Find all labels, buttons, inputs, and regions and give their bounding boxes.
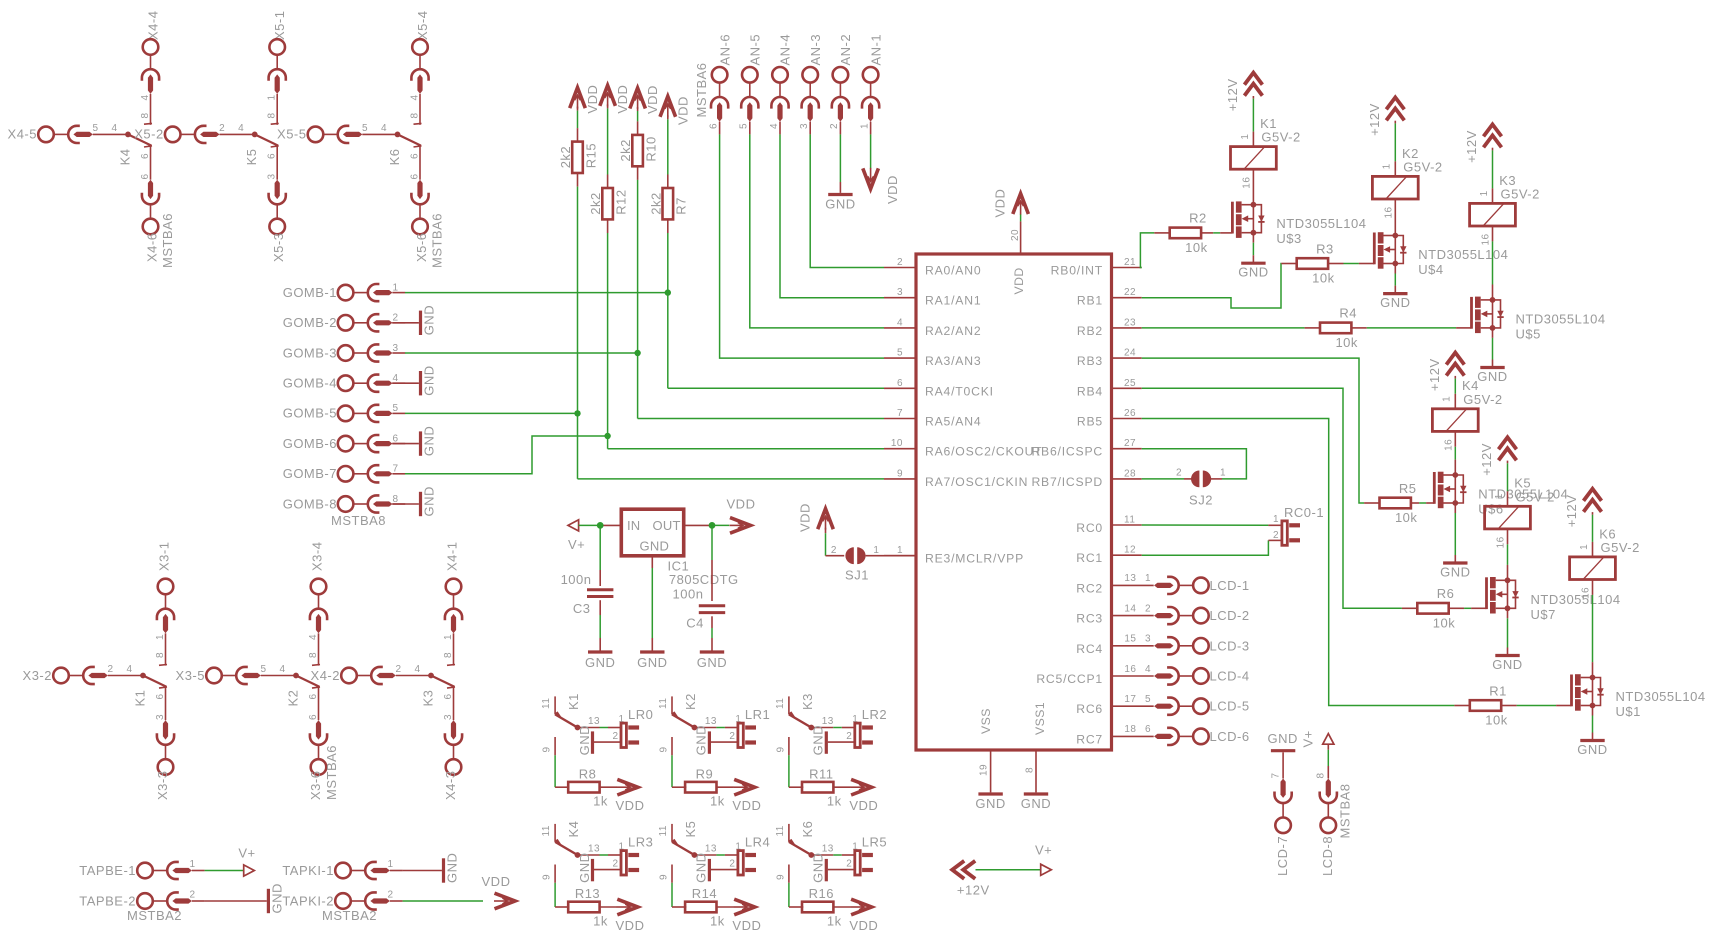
node K6 pivot — [808, 852, 814, 858]
svg-text:9: 9 — [897, 468, 903, 479]
ground IC1 — [640, 650, 664, 653]
relay K1 G5V-2 coil — [1231, 147, 1277, 170]
wire X4-5 to K4 common — [93, 133, 128, 135]
svg-text:6: 6 — [140, 173, 151, 179]
svg-text:28: 28 — [1124, 468, 1136, 479]
svg-text:GND: GND — [825, 197, 855, 212]
svg-text:R16: R16 — [809, 886, 834, 901]
svg-text:4: 4 — [410, 94, 421, 100]
transistor U$3 NTD3055L104 — [1232, 201, 1264, 238]
relay K5 G5V-2 coil — [1485, 506, 1531, 529]
svg-text:V+: V+ — [1035, 843, 1052, 858]
connector X5-3 pin — [269, 180, 286, 235]
node K5 pivot — [252, 132, 258, 138]
svg-text:GND: GND — [422, 486, 437, 516]
svg-text:U$7: U$7 — [1531, 607, 1556, 622]
led connector LR0 — [621, 723, 626, 747]
resistor R2 10k — [1170, 228, 1201, 239]
svg-text:6: 6 — [308, 693, 319, 699]
svg-text:6: 6 — [267, 153, 278, 159]
svg-text:3: 3 — [1145, 634, 1151, 645]
supply VDD (R11) — [851, 779, 872, 795]
svg-text:GOMB-7: GOMB-7 — [283, 466, 337, 481]
wire LR2 pin 2 to GND — [828, 741, 855, 743]
svg-text:RE3/MCLR/VPP: RE3/MCLR/VPP — [925, 552, 1024, 566]
svg-text:VDD: VDD — [616, 798, 645, 813]
svg-text:1: 1 — [1240, 134, 1251, 140]
svg-text:11: 11 — [1124, 515, 1135, 526]
supply VDD (IC1 output) — [730, 518, 751, 534]
svg-text:VDD: VDD — [849, 798, 878, 813]
svg-text:4: 4 — [279, 664, 285, 675]
wire SJ1 to RE3 — [866, 555, 916, 557]
resistor R12 2k2 — [602, 188, 613, 219]
svg-text:1: 1 — [873, 545, 879, 556]
svg-text:1: 1 — [267, 94, 278, 100]
svg-text:8: 8 — [1316, 772, 1327, 778]
svg-text:9: 9 — [658, 874, 669, 880]
svg-text:U$3: U$3 — [1276, 231, 1301, 246]
svg-text:RA3/AN3: RA3/AN3 — [925, 354, 981, 368]
wire VDD to R7 — [667, 115, 669, 119]
svg-text:1: 1 — [1442, 396, 1453, 402]
wire K3 pin 16 to U$5 drain — [1492, 226, 1494, 241]
supply +12V (K5) — [1499, 437, 1517, 460]
node R12/GOMB-7 junction — [604, 433, 610, 439]
wire K5 pin 16 to U$7 drain — [1507, 529, 1509, 544]
pin 9 RA7/OSC1/CKIN — [884, 478, 916, 480]
svg-text:16: 16 — [1496, 536, 1507, 548]
svg-text:LR3: LR3 — [628, 835, 653, 850]
wire R13 to VDD — [600, 906, 617, 908]
svg-text:GND: GND — [1238, 265, 1268, 280]
svg-text:MSTBA6: MSTBA6 — [694, 62, 709, 117]
svg-text:2: 2 — [392, 313, 398, 324]
svg-text:U$6: U$6 — [1478, 502, 1503, 517]
svg-text:1: 1 — [1479, 190, 1490, 196]
node K3 pivot — [808, 725, 814, 731]
svg-text:LCD-1: LCD-1 — [1210, 578, 1250, 593]
supply V+ (IC1 input) — [568, 520, 579, 531]
svg-text:9: 9 — [658, 746, 669, 752]
svg-text:8: 8 — [267, 112, 278, 118]
relay contact K2 (aux) — [671, 696, 673, 714]
svg-text:2: 2 — [189, 890, 195, 901]
svg-text:1: 1 — [859, 123, 870, 129]
relay contact K3 fixed contact — [453, 664, 455, 665]
relay contact K2 fixed contact — [318, 664, 320, 665]
supply VDD (R14) — [734, 899, 755, 915]
node IC1 output junction — [709, 522, 716, 529]
resistor R15 2k2 — [572, 142, 583, 173]
ground TAPBE-2 — [205, 900, 267, 902]
wire X3-5 to K2 common — [261, 675, 296, 677]
svg-text:VDD: VDD — [616, 918, 645, 933]
svg-text:LR4: LR4 — [745, 835, 770, 850]
svg-text:4: 4 — [381, 123, 387, 134]
pin 1 RE3/MCLR/VPP — [884, 555, 916, 557]
svg-text:26: 26 — [1124, 408, 1136, 419]
wire C4 to GND — [711, 616, 713, 628]
svg-text:R2: R2 — [1189, 211, 1207, 226]
svg-text:X4-5: X4-5 — [8, 127, 37, 142]
svg-text:VDD: VDD — [585, 85, 600, 114]
svg-text:G5V-2: G5V-2 — [1463, 392, 1502, 407]
svg-text:SJ1: SJ1 — [845, 568, 869, 583]
resistor R7 2k2 — [663, 188, 674, 219]
svg-text:GOMB-4: GOMB-4 — [283, 376, 337, 391]
ground GOMB-8 — [392, 503, 419, 505]
svg-text:X3-6: X3-6 — [308, 771, 323, 800]
svg-text:VDD: VDD — [885, 175, 900, 204]
svg-text:RB2: RB2 — [1077, 324, 1103, 338]
svg-text:GND: GND — [1021, 796, 1051, 811]
svg-text:GND: GND — [811, 725, 826, 755]
svg-text:RC5/CCP1: RC5/CCP1 — [1036, 672, 1103, 686]
wire +12V to K2 — [1394, 121, 1396, 124]
resistor R6 10k — [1417, 603, 1448, 614]
svg-text:GND: GND — [697, 655, 727, 670]
ic U1 PIC microcontroller body — [916, 254, 1112, 750]
svg-text:16: 16 — [1481, 233, 1492, 245]
svg-text:GND: GND — [585, 655, 615, 670]
svg-text:K4: K4 — [566, 821, 581, 838]
svg-text:LCD-4: LCD-4 — [1210, 669, 1250, 684]
wire LR0 pin 2 to GND — [594, 741, 621, 743]
svg-text:RC7: RC7 — [1076, 732, 1103, 746]
svg-text:2: 2 — [1176, 468, 1182, 479]
pin 16 RC5/CCP1 — [1112, 675, 1154, 677]
svg-text:11: 11 — [658, 698, 669, 709]
svg-text:4: 4 — [238, 123, 244, 134]
svg-text:U$4: U$4 — [1418, 262, 1443, 277]
svg-text:+12V: +12V — [1464, 130, 1479, 163]
svg-text:18: 18 — [1124, 724, 1136, 735]
node K1 pivot — [575, 725, 581, 731]
svg-text:23: 23 — [1124, 317, 1136, 328]
ground TAPKI-1 — [403, 870, 442, 872]
svg-text:11: 11 — [658, 825, 669, 836]
svg-text:RB5: RB5 — [1077, 415, 1103, 429]
svg-text:9: 9 — [542, 746, 553, 752]
wire K2 pin 16 to U$4 drain — [1394, 199, 1396, 236]
pin 8 VSS1 — [1035, 750, 1037, 792]
svg-text:3: 3 — [443, 714, 454, 720]
pin 11 RC0 — [1112, 524, 1142, 526]
ground VSS1 — [1024, 792, 1048, 795]
svg-text:8: 8 — [392, 494, 398, 505]
svg-text:V+: V+ — [238, 846, 255, 861]
ground K3 — [825, 731, 828, 753]
svg-text:10k: 10k — [1395, 510, 1417, 525]
svg-text:14: 14 — [1124, 603, 1136, 614]
node R10/GOMB-3 junction — [634, 350, 640, 356]
svg-text:G5V-2: G5V-2 — [1261, 130, 1300, 145]
svg-text:8: 8 — [410, 112, 421, 118]
ground GOMB-2 — [392, 322, 419, 324]
svg-text:2: 2 — [612, 859, 618, 870]
wire LR3 pin 2 to GND — [594, 869, 621, 871]
connector X4-3 pin — [445, 720, 462, 775]
node K2 pivot — [293, 673, 299, 679]
ground U$4 — [1383, 292, 1407, 295]
wire K4 pin 9 to R13 — [554, 865, 556, 883]
svg-text:4: 4 — [126, 664, 132, 675]
wire VDD to R10 — [637, 107, 639, 111]
svg-text:LCD-6: LCD-6 — [1210, 729, 1250, 744]
wire K3 pin 13 to LR2 — [811, 727, 833, 729]
svg-text:2k2: 2k2 — [648, 192, 663, 214]
svg-text:GND: GND — [694, 725, 709, 755]
svg-text:GND: GND — [975, 796, 1005, 811]
wire K2 pin 9 to R9 — [671, 737, 673, 755]
svg-text:GND: GND — [422, 305, 437, 335]
svg-text:VDD: VDD — [675, 96, 690, 125]
svg-text:9: 9 — [775, 746, 786, 752]
svg-text:2: 2 — [107, 664, 113, 675]
svg-text:3: 3 — [155, 714, 166, 720]
wire IC1 GND pin — [651, 556, 653, 568]
relay K2 G5V-2 coil — [1372, 176, 1418, 199]
svg-text:1: 1 — [189, 859, 195, 870]
svg-text:K3: K3 — [421, 690, 436, 707]
svg-text:GND: GND — [1492, 657, 1522, 672]
svg-text:MSTBA2: MSTBA2 — [127, 908, 182, 923]
pin 3 RA1/AN1 — [884, 297, 916, 299]
svg-text:K2: K2 — [683, 693, 698, 710]
wire RB3 to R5 — [1142, 358, 1364, 503]
svg-text:GND: GND — [694, 853, 709, 883]
wire SJ2 to RB6 — [1210, 478, 1223, 480]
svg-text:RA1/AN1: RA1/AN1 — [925, 294, 981, 308]
svg-text:GOMB-3: GOMB-3 — [283, 345, 337, 360]
svg-text:U$1: U$1 — [1616, 704, 1641, 719]
svg-text:X3-1: X3-1 — [157, 542, 172, 571]
svg-text:AN-5: AN-5 — [748, 34, 763, 66]
svg-text:10k: 10k — [1185, 240, 1207, 255]
wire VDD to R12 — [607, 104, 609, 108]
wire LR4 pin 2 to GND — [711, 869, 738, 871]
resistor R8 1k — [568, 782, 599, 793]
relay contact K4 fixed contact — [150, 124, 152, 126]
connector LCD-7 pin — [1282, 752, 1284, 778]
pin 7 RA5/AN4 — [884, 418, 916, 420]
svg-text:100n: 100n — [561, 572, 592, 587]
wire R7 net to RA4 — [667, 233, 669, 388]
wire AN-2 to GND — [839, 134, 841, 182]
wire K4 pin 16 to U$6 drain — [1454, 431, 1456, 446]
resistor R1 10k — [1470, 700, 1501, 711]
led connector LR1 — [738, 723, 743, 747]
supply +12V (K6) — [1584, 489, 1602, 512]
svg-text:RA6/OSC2/CKOUT: RA6/OSC2/CKOUT — [925, 445, 1043, 459]
connector LCD-8 pin — [1327, 744, 1329, 750]
svg-text:1: 1 — [1220, 468, 1226, 479]
connector LCD-5 pin — [1154, 698, 1209, 715]
svg-text:3: 3 — [799, 123, 810, 129]
wire AN-3 net — [810, 134, 884, 267]
wire K4 pin 13 to LR3 — [578, 854, 600, 856]
svg-text:RC0-1: RC0-1 — [1284, 505, 1324, 520]
connector LCD-4 pin — [1154, 667, 1209, 684]
svg-text:GOMB-5: GOMB-5 — [283, 406, 337, 421]
svg-text:10: 10 — [891, 438, 903, 449]
svg-text:K1: K1 — [566, 693, 581, 710]
ground LCD-7 — [1271, 749, 1295, 752]
wire R7 lower lead — [667, 219, 669, 233]
svg-text:8: 8 — [155, 652, 166, 658]
ground U$3 — [1241, 262, 1265, 265]
svg-text:VDD: VDD — [798, 503, 813, 532]
svg-text:X3-5: X3-5 — [176, 668, 205, 683]
pin 23 RB2 — [1112, 327, 1142, 329]
ground U$6 — [1443, 561, 1467, 564]
svg-text:NTD3055L104: NTD3055L104 — [1418, 247, 1508, 262]
svg-text:5: 5 — [392, 403, 398, 414]
svg-text:8: 8 — [443, 652, 454, 658]
svg-text:+12V: +12V — [1479, 443, 1494, 476]
pin 6 RA4/T0CKI — [884, 387, 916, 389]
node K4 pivot — [575, 852, 581, 858]
relay K4 G5V-2 coil — [1432, 409, 1478, 432]
svg-text:2: 2 — [729, 731, 735, 742]
connector LCD-3 pin — [1154, 637, 1209, 654]
resistor R4 10k — [1320, 323, 1351, 334]
led connector LR3 — [621, 851, 626, 875]
svg-text:G5V-2: G5V-2 — [1501, 186, 1540, 201]
svg-text:16: 16 — [1124, 664, 1136, 675]
svg-text:RA4/T0CKI: RA4/T0CKI — [925, 384, 994, 398]
resistor R11 1k — [802, 782, 833, 793]
svg-text:RB6/ICSPC: RB6/ICSPC — [1031, 445, 1103, 459]
wire K5 pin 13 to LR4 — [694, 854, 716, 856]
svg-text:9: 9 — [775, 874, 786, 880]
svg-text:R8: R8 — [579, 766, 597, 781]
capacitor C4 100n — [711, 525, 713, 560]
voltage regulator IC1 7805CDTG — [621, 509, 683, 556]
relay contact K5 blade — [255, 134, 278, 145]
connector X3-3 pin — [157, 720, 174, 775]
svg-text:K5: K5 — [244, 148, 259, 165]
svg-text:VDD: VDD — [727, 497, 756, 512]
svg-text:VDD: VDD — [993, 189, 1008, 218]
pin 24 RB3 — [1112, 357, 1142, 359]
svg-text:2: 2 — [219, 123, 225, 134]
svg-text:7: 7 — [897, 408, 903, 419]
svg-text:GND: GND — [422, 365, 437, 395]
svg-text:+12V: +12V — [1564, 495, 1579, 528]
svg-text:2: 2 — [729, 859, 735, 870]
pin 17 RC6 — [1112, 705, 1154, 707]
wire R4 to U$5 gate — [1351, 327, 1366, 329]
svg-text:2: 2 — [831, 545, 837, 556]
solder jumper SJ1 — [845, 547, 853, 564]
svg-text:RA2/AN2: RA2/AN2 — [925, 324, 981, 338]
ground GOMB-6 — [392, 443, 419, 445]
svg-text:16: 16 — [1242, 177, 1253, 189]
wire R2 to U$3 gate — [1201, 232, 1213, 234]
svg-text:1: 1 — [443, 634, 454, 640]
svg-text:X5-1: X5-1 — [272, 11, 287, 40]
wire RB5 to R1 — [1142, 419, 1455, 706]
pin 4 RA2/AN2 — [884, 327, 916, 329]
svg-text:GND: GND — [1268, 731, 1298, 746]
wire R16 to VDD — [833, 906, 850, 908]
wire AN-4 net — [780, 134, 884, 297]
svg-text:VDD: VDD — [732, 918, 761, 933]
wire R15 net to RA7 — [577, 187, 579, 479]
svg-text:R1: R1 — [1489, 683, 1507, 698]
svg-text:1k: 1k — [827, 914, 842, 929]
svg-text:15: 15 — [1124, 634, 1136, 645]
svg-text:3: 3 — [392, 343, 398, 354]
wire R9 to VDD — [717, 786, 734, 788]
wire RB0 to R2 — [1140, 233, 1154, 268]
wire R10 lower lead — [637, 166, 639, 180]
svg-text:6: 6 — [140, 153, 151, 159]
svg-text:X3-3: X3-3 — [155, 771, 170, 800]
svg-text:4: 4 — [308, 634, 319, 640]
svg-text:G5V-2: G5V-2 — [1516, 489, 1555, 504]
ground K6 — [825, 859, 828, 881]
svg-text:AN-4: AN-4 — [778, 34, 793, 66]
svg-text:GND: GND — [1440, 565, 1470, 580]
svg-text:TAPBE-1: TAPBE-1 — [79, 863, 136, 878]
svg-text:X3-4: X3-4 — [310, 542, 325, 571]
svg-text:9: 9 — [542, 874, 553, 880]
svg-text:RC6: RC6 — [1076, 702, 1103, 716]
wire +12V to K6 — [1592, 512, 1594, 515]
wire GOMB-1 net — [405, 292, 668, 294]
svg-text:OUT: OUT — [653, 518, 681, 533]
node R7/GOMB-1 junction — [665, 289, 671, 295]
svg-text:VDD: VDD — [645, 85, 660, 114]
svg-text:R12: R12 — [613, 189, 628, 214]
svg-text:X4-4: X4-4 — [145, 11, 160, 40]
svg-text:LR2: LR2 — [862, 707, 887, 722]
svg-text:1k: 1k — [710, 914, 725, 929]
node K4 pivot — [125, 132, 131, 138]
svg-text:10k: 10k — [1312, 271, 1334, 286]
ground K2 — [708, 731, 711, 753]
ground U$7 — [1495, 654, 1519, 657]
svg-text:4: 4 — [140, 94, 151, 100]
pin 13 RC2 — [1112, 584, 1154, 586]
svg-text:RB4: RB4 — [1077, 384, 1103, 398]
svg-text:G5V-2: G5V-2 — [1601, 540, 1640, 555]
wire U$4 source to GND — [1394, 264, 1396, 274]
svg-text:8: 8 — [308, 652, 319, 658]
relay contact K2 blade — [296, 676, 319, 687]
pin 15 RC4 — [1112, 645, 1154, 647]
wire K3 pin 9 to R11 — [788, 737, 790, 755]
wire RC1 net — [1142, 540, 1269, 555]
node K5 pivot — [692, 852, 698, 858]
pin 21 RB0/INT — [1112, 267, 1142, 269]
svg-text:11: 11 — [775, 825, 786, 836]
wire IC1 OUT to VDD — [684, 524, 712, 526]
svg-text:2: 2 — [395, 664, 401, 675]
node IC1 input junction — [597, 522, 604, 529]
ground C3 — [588, 650, 612, 653]
relay contact K5 (aux) — [671, 824, 673, 842]
supply +12V (K2) — [1386, 97, 1404, 120]
svg-text:MSTBA6: MSTBA6 — [324, 745, 339, 800]
wire R1 to U$1 gate — [1501, 705, 1516, 707]
svg-text:3: 3 — [267, 173, 278, 179]
svg-text:1: 1 — [1273, 514, 1279, 525]
supply VDD (R8) — [617, 779, 638, 795]
